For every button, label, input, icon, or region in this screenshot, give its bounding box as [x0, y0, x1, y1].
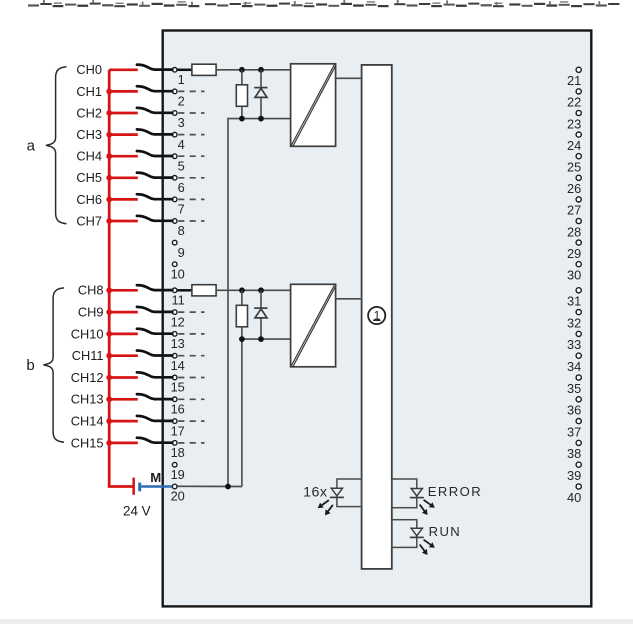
svg-text:7: 7 — [178, 202, 185, 217]
wire: R22 bottom to reference rail — [241, 327, 243, 339]
junction node M rail / group1 reference — [225, 484, 231, 490]
svg-text:22: 22 — [567, 95, 581, 110]
svg-text:M: M — [150, 470, 161, 485]
svg-text:31: 31 — [567, 294, 581, 309]
svg-text:CH0: CH0 — [76, 62, 102, 77]
terminal 11 — [172, 288, 185, 308]
LED RUN symbol — [410, 528, 424, 537]
terminal 38 — [567, 440, 581, 461]
junction node CH7/bus — [106, 218, 112, 224]
svg-text:CH8: CH8 — [78, 283, 104, 298]
opto-isolation block U2 — [291, 284, 336, 367]
svg-text:21: 21 — [567, 73, 581, 88]
switch contact CH0 — [137, 65, 172, 70]
junction node CH8/bus — [106, 287, 112, 293]
svg-text:CH3: CH3 — [76, 127, 102, 142]
LED ERROR symbol — [410, 489, 424, 498]
switch contact CH6 — [137, 194, 172, 199]
terminal 3 — [172, 111, 204, 131]
terminal 20 — [171, 484, 185, 504]
svg-text:ERROR: ERROR — [428, 484, 482, 499]
junction node (rail/D2) — [258, 336, 264, 342]
backplane bus interface block — [362, 65, 392, 569]
terminal 37 — [567, 419, 581, 440]
wire: CH14 stub (red) — [109, 420, 138, 423]
svg-text:39: 39 — [567, 468, 581, 483]
svg-text:16x: 16x — [303, 484, 327, 500]
terminal 18 — [171, 441, 205, 461]
svg-text:1: 1 — [178, 72, 185, 87]
terminal 22 — [567, 89, 581, 110]
svg-text:13: 13 — [171, 336, 185, 351]
wire: M (blue) to terminal 20 — [141, 485, 172, 488]
svg-text:8: 8 — [178, 223, 185, 238]
LED ERROR emission arrows — [420, 500, 435, 515]
wire: CH7 stub (red) — [109, 220, 138, 223]
terminal 23 — [567, 110, 581, 131]
wire: CH0 stub (red) — [109, 68, 138, 71]
junction node CH3/bus — [106, 132, 112, 138]
terminal 2 — [172, 89, 204, 109]
svg-text:24 V: 24 V — [123, 504, 151, 519]
wire: CH13 stub (red) — [109, 398, 138, 401]
svg-text:CH13: CH13 — [71, 392, 104, 407]
wire: R12 bottom to reference rail — [241, 106, 243, 118]
svg-text:9: 9 — [178, 245, 185, 260]
svg-text:30: 30 — [567, 268, 581, 283]
switch contact CH5 — [137, 173, 172, 178]
resistor R11 (input series) — [192, 64, 216, 75]
terminal 39 — [567, 462, 581, 483]
wire: U1 output to backplane interface — [336, 77, 362, 79]
terminal 33 — [567, 331, 581, 352]
svg-text:CH15: CH15 — [71, 435, 104, 450]
svg-text:11: 11 — [172, 293, 185, 308]
battery 24 V, positive plate (red) — [132, 478, 135, 495]
junction node CH13/bus — [106, 396, 112, 402]
svg-text:18: 18 — [171, 445, 185, 460]
svg-text:6: 6 — [178, 180, 185, 195]
wire: R11 to isolation block U1 — [216, 69, 291, 71]
terminal 15 — [171, 375, 205, 395]
switch contact CH10 — [137, 329, 172, 334]
wire: group 2 reference down to M rail — [241, 339, 243, 486]
wire: CH9 stub (red) — [109, 311, 138, 314]
circled label 1 — [368, 307, 385, 324]
switch contact CH7 — [137, 216, 172, 221]
junction node CH10/bus — [106, 331, 112, 337]
terminal 29 — [567, 240, 581, 261]
svg-text:23: 23 — [567, 116, 581, 131]
switch contact CH11 — [137, 351, 172, 356]
terminal 35 — [567, 375, 581, 396]
terminal 34 — [567, 353, 581, 374]
svg-text:CH6: CH6 — [76, 192, 102, 207]
svg-text:5: 5 — [178, 158, 185, 173]
terminal 27 — [567, 197, 581, 218]
reference rail wire (group 2) — [242, 338, 291, 340]
LED RUN loop wire — [392, 520, 417, 548]
svg-text:CH1: CH1 — [76, 84, 102, 99]
switch contact CH14 — [137, 416, 172, 421]
terminal 40 — [567, 484, 581, 505]
switch contact CH15 — [137, 438, 172, 443]
wire: CH3 stub (red) — [109, 133, 138, 136]
svg-text:CH12: CH12 — [71, 370, 104, 385]
LED 16x emission arrows — [318, 500, 333, 515]
junction node CH2/bus — [106, 110, 112, 116]
svg-text:35: 35 — [567, 381, 581, 396]
svg-text:2: 2 — [178, 94, 185, 109]
wire: terminal 1 input to resistor R11 — [178, 69, 192, 72]
svg-text:32: 32 — [567, 315, 581, 330]
svg-text:16: 16 — [171, 402, 185, 417]
junction node (rail/R22) — [239, 336, 245, 342]
svg-text:14: 14 — [171, 358, 185, 373]
terminal 31 — [567, 288, 581, 309]
junction node CH1/bus — [106, 89, 112, 95]
svg-text:27: 27 — [567, 203, 581, 218]
svg-text:CH11: CH11 — [72, 348, 104, 363]
terminal 7 — [172, 197, 204, 217]
svg-text:3: 3 — [178, 115, 185, 130]
brace group a — [46, 67, 67, 224]
junction node (R12 top) — [239, 67, 245, 73]
svg-text:CH5: CH5 — [76, 170, 102, 185]
wire: CH6 stub (red) — [109, 198, 138, 201]
page strip (bottom) — [0, 620, 633, 624]
svg-text:CH2: CH2 — [76, 105, 102, 120]
switch contact CH8 — [137, 285, 172, 290]
switch contact CH9 — [137, 307, 172, 312]
junction node CH12/bus — [106, 375, 112, 381]
wire: terminal 11 input to resistor R21 — [178, 289, 192, 292]
resistor R12 (vertical) — [236, 85, 247, 107]
terminal 17 — [171, 419, 205, 438]
terminal 5 — [172, 154, 204, 174]
svg-text:24: 24 — [567, 138, 581, 153]
svg-text:29: 29 — [567, 246, 581, 261]
terminal 32 — [567, 310, 581, 331]
terminal 25 — [567, 154, 581, 175]
module body — [163, 31, 592, 607]
switch contact CH2 — [137, 108, 172, 113]
switch contact CH4 — [137, 151, 172, 156]
terminal 8 — [172, 219, 204, 239]
wire: CH4 stub (red) — [109, 155, 138, 158]
LED channel status (16x) loop wire — [337, 479, 362, 507]
junction node (rail/R12) — [239, 116, 245, 122]
svg-text:33: 33 — [567, 337, 581, 352]
LED channel status (16x) symbol — [330, 488, 344, 497]
junction node (D1 top) — [258, 67, 264, 73]
svg-text:b: b — [26, 357, 34, 374]
battery 24 V, negative plate (blue) — [138, 483, 141, 492]
svg-text:4: 4 — [178, 137, 185, 152]
wire: CH8 stub (red) — [109, 289, 138, 292]
wire: CH15 stub (red) — [109, 442, 138, 445]
junction node CH4/bus — [106, 153, 112, 159]
terminal 4 — [172, 132, 204, 152]
junction node (D2 top) — [258, 287, 264, 293]
wire: U2 output to backplane interface — [336, 298, 362, 300]
terminal 36 — [567, 397, 581, 418]
svg-text:a: a — [27, 138, 36, 155]
wire: CH5 stub (red) — [109, 176, 138, 179]
junction node CH14/bus — [106, 418, 112, 424]
svg-text:CH9: CH9 — [78, 305, 104, 320]
svg-text:26: 26 — [567, 181, 581, 196]
terminal 1 — [172, 68, 184, 88]
svg-text:17: 17 — [171, 423, 185, 438]
diode D2 (clamp, cathode up) — [254, 290, 267, 339]
wire: M rail inside module — [177, 485, 242, 487]
wire: CH10 stub (red) — [109, 333, 138, 336]
svg-text:12: 12 — [171, 314, 185, 329]
svg-text:CH14: CH14 — [71, 414, 104, 429]
svg-text:CH4: CH4 — [76, 149, 102, 164]
svg-text:10: 10 — [171, 266, 185, 281]
terminal 10 — [171, 262, 185, 281]
svg-text:28: 28 — [567, 224, 581, 239]
wire: CH2 stub (red) — [109, 112, 138, 115]
junction node CH11/bus — [106, 353, 112, 359]
terminal 9 — [172, 240, 184, 259]
junction node CH6/bus — [106, 197, 112, 203]
brace group b — [43, 288, 64, 442]
svg-text:CH10: CH10 — [71, 326, 104, 341]
terminal 12 — [171, 310, 205, 329]
junction node (R22 top) — [239, 287, 245, 293]
junction node (rail/D1) — [258, 116, 264, 122]
junction node CH15/bus — [106, 440, 112, 446]
terminal 30 — [567, 262, 581, 283]
svg-text:38: 38 — [567, 446, 581, 461]
wire: junction down to resistor R12 — [241, 70, 243, 85]
terminal 16 — [171, 397, 205, 417]
svg-text:25: 25 — [567, 160, 581, 175]
wire: junction down to resistor R22 — [241, 290, 243, 305]
svg-text:20: 20 — [171, 489, 185, 504]
terminal 28 — [567, 218, 581, 239]
cut-off caption text (top edge) — [28, 0, 619, 7]
wire: CH11 stub (red) — [109, 354, 138, 357]
wire: R21 to isolation block U2 — [216, 289, 291, 291]
svg-text:15: 15 — [171, 380, 185, 395]
LED ERROR loop wire — [392, 479, 417, 508]
wire: CH1 stub (red) — [109, 90, 138, 93]
svg-text:34: 34 — [567, 359, 581, 374]
terminal 13 — [171, 332, 205, 352]
resistor R22 (vertical) — [236, 305, 247, 327]
terminal 21 — [567, 67, 581, 88]
svg-text:37: 37 — [567, 424, 581, 439]
resistor R21 (input series) — [192, 285, 216, 296]
switch contact CH13 — [137, 394, 172, 399]
svg-text:CH7: CH7 — [76, 213, 102, 228]
terminal 26 — [567, 175, 581, 196]
LED RUN emission arrows — [420, 540, 435, 555]
opto-isolation block U1 — [291, 64, 336, 147]
junction node CH5/bus — [106, 175, 112, 181]
terminal 19 — [171, 462, 185, 481]
L+ supply bus (red) — [109, 70, 133, 487]
svg-text:40: 40 — [567, 490, 581, 505]
terminal 6 — [172, 176, 204, 196]
terminal 14 — [171, 353, 205, 372]
wire: CH12 stub (red) — [109, 376, 138, 379]
junction node CH9/bus — [106, 309, 112, 315]
terminal 24 — [567, 132, 581, 153]
diode D1 (clamp, cathode up) — [254, 70, 267, 119]
svg-text:36: 36 — [567, 403, 581, 418]
switch contact CH12 — [137, 372, 172, 377]
svg-text:19: 19 — [171, 467, 185, 482]
reference rail wire (group 1) — [228, 119, 291, 487]
switch contact CH3 — [137, 129, 172, 134]
switch contact CH1 — [137, 86, 172, 91]
svg-text:RUN: RUN — [429, 524, 462, 539]
